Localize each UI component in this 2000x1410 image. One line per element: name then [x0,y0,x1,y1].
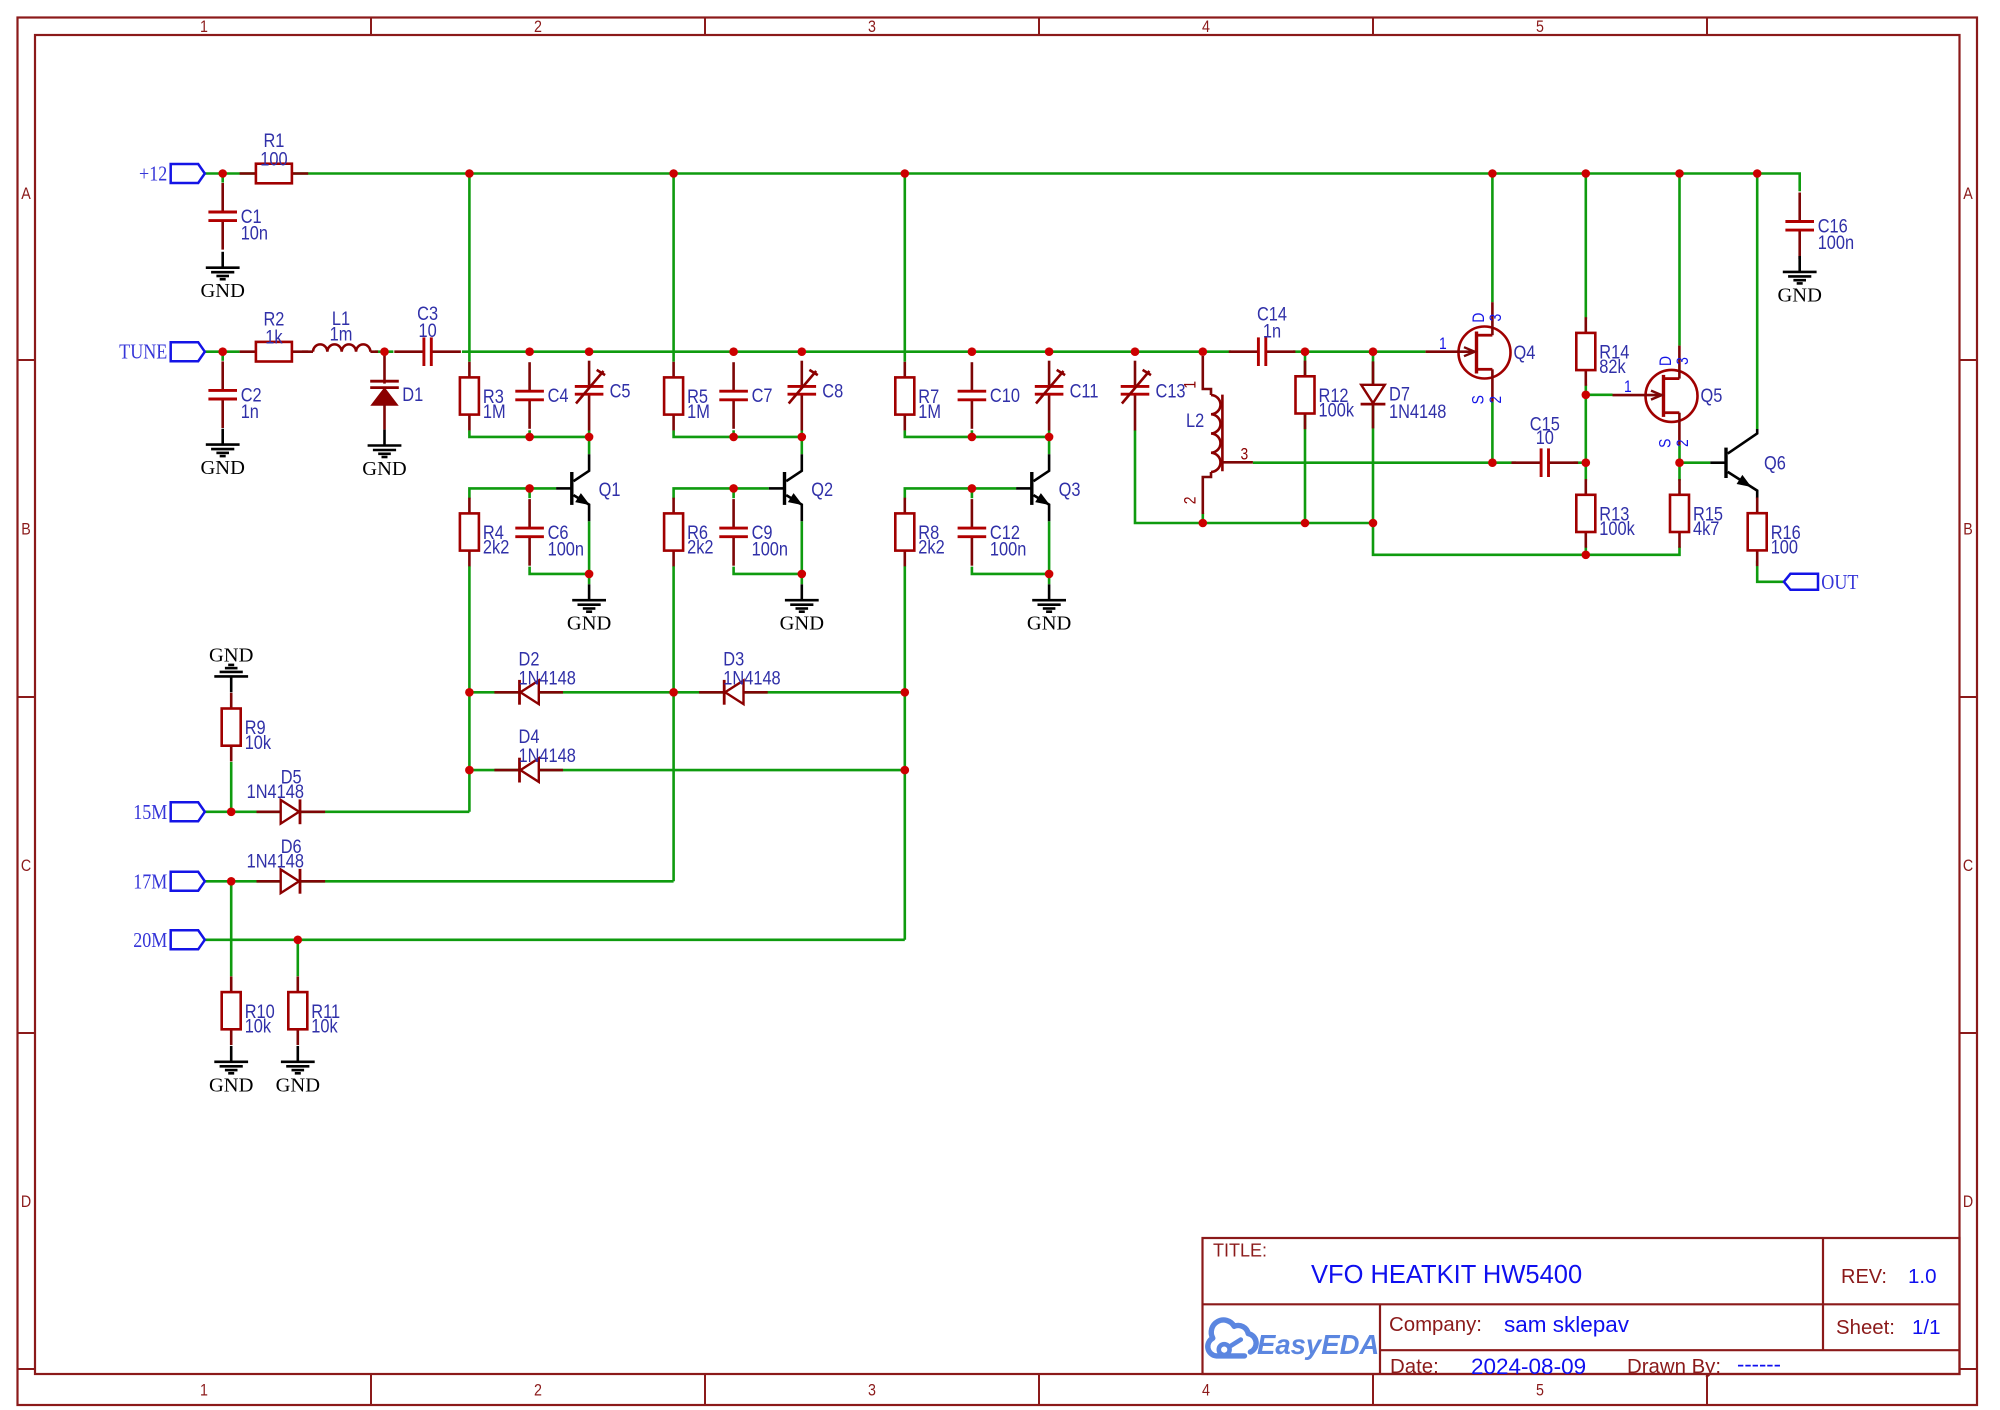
svg-text:20M: 20M [133,928,167,952]
port 20M [133,928,205,952]
junction Q5 gate net [1582,391,1591,400]
svg-text:1N4148: 1N4148 [519,667,576,689]
port OUT [1784,570,1859,594]
svg-text:VFO HEATKIT HW5400: VFO HEATKIT HW5400 [1311,1261,1582,1289]
capacitor C15 [1512,413,1579,477]
capacitor C9 [719,499,788,566]
ground under C16 [1777,256,1821,306]
svg-text:Drawn By:: Drawn By: [1627,1356,1721,1378]
wire base rail [469,488,556,498]
ground above R9 [209,644,253,692]
svg-text:TITLE:: TITLE: [1213,1240,1267,1260]
junction base rail [968,484,977,493]
svg-text:1M: 1M [687,400,710,422]
svg-text:1M: 1M [483,400,506,422]
svg-text:TUNE: TUNE [119,340,167,364]
wire osc bottom rail [469,430,589,454]
wire 17M net [205,880,674,883]
capacitor C1 [208,183,268,250]
wire TUNE rail [462,350,1231,353]
junction osc bottom rail [968,433,977,442]
junction tank bottom rail [1301,519,1310,528]
junction +12 rail [1582,169,1591,178]
svg-text:GND: GND [362,458,406,480]
capacitor C3 [394,302,461,366]
svg-text:17M: 17M [133,870,167,894]
junction TUNE net [1301,347,1310,356]
wire osc bottom rail [674,430,802,454]
wire cap stub [971,430,974,437]
resistor R11 [288,976,340,1045]
svg-text:REV:: REV: [1841,1266,1887,1288]
svg-text:2k2: 2k2 [483,536,509,558]
svg-text:C: C [21,857,31,875]
resistor R12 [1296,361,1355,430]
svg-text:B: B [21,520,31,538]
svg-text:4k7: 4k7 [1693,518,1719,540]
wire tank bottom rail [1135,430,1680,555]
svg-text:3: 3 [1241,445,1249,463]
svg-text:Q6: Q6 [1764,452,1786,474]
wire bypass stub [528,488,531,498]
svg-text:GND: GND [200,457,244,479]
svg-text:1N4148: 1N4148 [1389,401,1446,423]
capacitor C14 [1229,303,1296,366]
varactor C13 [1121,361,1186,431]
svg-text:D: D [1963,1193,1973,1211]
svg-text:1N4148: 1N4148 [247,781,304,803]
capacitor C6 [515,499,584,566]
resistor R3 [460,362,506,431]
svg-text:1n: 1n [241,400,259,422]
svg-text:1: 1 [200,1381,208,1399]
junction TUNE net [1199,347,1208,356]
svg-text:10: 10 [418,320,436,342]
JFET Q5 [1613,346,1723,448]
junction +12 rail [901,169,910,178]
junction +12 rail [669,169,678,178]
junction D2-D3 rail [901,688,910,697]
svg-text:2k2: 2k2 [918,536,944,558]
junction TUNE net [1369,347,1378,356]
diode D6 [247,835,326,893]
svg-text:GND: GND [567,613,611,635]
junction TUNE net [525,347,534,356]
port 17M [133,870,205,894]
junction base rail [729,484,738,493]
svg-text:GND: GND [1777,284,1821,306]
svg-text:C10: C10 [990,385,1020,407]
junction R13 bottom rail [1582,551,1591,560]
junction emitter rail [798,570,807,579]
svg-text:2: 2 [534,1381,542,1399]
capacitor C7 [719,362,772,429]
junction TUNE net [798,347,807,356]
JFET Q4 [1426,302,1536,404]
resistor R4 [460,498,509,567]
junction TUNE net [218,347,227,356]
junction TUNE net [729,347,738,356]
resistor R2 [240,308,309,362]
svg-text:1N4148: 1N4148 [723,667,780,689]
wire cap stub [528,430,531,437]
wire L1 to C3 [375,350,393,353]
svg-text:10: 10 [1536,427,1554,449]
diode D3 [699,648,781,705]
junction emitter rail [1045,570,1054,579]
wire Q4 drain [1491,174,1494,303]
svg-text:GND: GND [200,280,244,302]
junction D4 rail [901,766,910,775]
junction D2-D3 rail [669,688,678,697]
svg-text:OUT: OUT [1821,570,1858,594]
port 15M [133,800,205,824]
junction L2 tap net [1488,458,1497,467]
svg-text:Q2: Q2 [811,478,833,500]
svg-text:C11: C11 [1070,380,1099,402]
junction +12 rail [1488,169,1497,178]
ground under C1 [200,252,244,302]
varactor diode D1 [370,352,423,430]
svg-text:Q5: Q5 [1701,385,1723,407]
resistor R5 [664,362,710,431]
svg-text:EasyEDA: EasyEDA [1257,1329,1379,1360]
junction osc bottom rail [585,433,594,442]
junction L2 tap net [1582,458,1591,467]
wire Q6 collector riser [1756,174,1759,430]
ground under Q1 [567,584,611,634]
junction osc bottom rail [1045,433,1054,442]
title block [1203,1238,1960,1379]
wire TUNE port lead [205,350,240,353]
junction 15M net [227,808,236,817]
wire D2-D3 rail [469,691,904,694]
svg-text:100n: 100n [752,538,788,560]
svg-text:S: S [1469,395,1487,404]
svg-text:100: 100 [260,148,287,170]
wire C15 to R13 [1574,461,1586,464]
ground under C2 [200,429,244,479]
junction emitter rail [585,570,594,579]
svg-text:5: 5 [1536,1381,1544,1399]
port TUNE [119,340,205,364]
svg-text:1/1: 1/1 [1912,1316,1941,1339]
svg-text:GND: GND [276,1074,320,1096]
svg-text:L2: L2 [1186,410,1204,432]
svg-text:100n: 100n [990,538,1026,560]
wire varcap stub [1048,430,1051,437]
resistor R9 [222,693,272,762]
svg-text:1.0: 1.0 [1908,1265,1937,1288]
wire R8 to 20M node [903,566,906,940]
wire base rail [905,488,1016,498]
svg-text:Q4: Q4 [1514,341,1536,363]
svg-text:GND: GND [1027,613,1071,635]
svg-text:D1: D1 [402,383,423,405]
svg-text:D: D [1470,313,1488,323]
svg-text:3: 3 [868,1381,876,1399]
resistor R8 [895,498,944,567]
wire R6 to 17M node [672,566,675,881]
wire Q6 base lead [1680,461,1711,464]
diode D5 [247,766,326,824]
resistor R1 [240,130,309,184]
wire R9 lead [230,762,233,812]
wire C2 stub [221,352,224,361]
resistor R13 [1576,479,1635,548]
ground under D1 [362,430,406,480]
wire D7 column [1372,352,1375,523]
junction TUNE net [585,347,594,356]
wire C16 stub [1798,190,1801,193]
junction osc bottom rail [729,433,738,442]
junction +12 rail [465,169,474,178]
diode D4 [494,726,575,783]
svg-text:D: D [1657,356,1675,366]
svg-text:1: 1 [1181,381,1199,389]
ground under Q2 [780,584,824,634]
svg-text:C8: C8 [822,380,843,402]
svg-text:1: 1 [1624,378,1632,396]
svg-text:2: 2 [534,18,542,36]
junction 20M net [294,936,303,945]
wire base rail [674,488,769,498]
wire +12 to R3 [468,174,471,362]
ground under R10 [209,1046,253,1096]
svg-text:GND: GND [209,644,253,666]
resistor R16 [1748,498,1801,567]
junction base rail [525,484,534,493]
resistor R14 [1576,317,1629,386]
junction TUNE net [1045,347,1054,356]
svg-text:100n: 100n [548,538,584,560]
wire Q5 source lead [1678,445,1681,463]
capacitor C16 [1785,193,1854,260]
resistor R6 [664,498,713,567]
diode D7 [1361,361,1447,428]
svg-text:C: C [1963,857,1973,875]
wire emitter lead [800,521,803,574]
varactor C11 [1035,361,1099,431]
wire emitter rail [972,567,1049,585]
wire bypass stub [971,488,974,498]
transistor Q6 [1710,429,1786,499]
wire varcap stub [588,430,591,437]
wire C1 stub [221,174,224,183]
wire 15M net [205,810,470,813]
junction osc bottom rail [525,433,534,442]
capacitor C10 [958,362,1020,429]
junction +12 rail [1675,169,1684,178]
svg-text:2: 2 [1181,497,1199,505]
svg-text:A: A [1963,185,1973,203]
svg-text:C7: C7 [752,385,773,407]
wire osc bottom rail [905,430,1049,454]
wire cap stub [732,430,735,437]
svg-text:10k: 10k [245,731,272,753]
inductor L2 [1181,356,1252,514]
wire D4 rail [469,769,904,772]
wire R14 top [1585,174,1588,319]
junction TUNE net [380,347,389,356]
capacitor C4 [515,362,568,429]
svg-text:1m: 1m [330,323,353,345]
wire +12 to R5 [672,174,675,362]
junction +12 rail [218,169,227,178]
svg-text:D: D [21,1193,31,1211]
junction TUNE net [968,347,977,356]
junction D4 rail [465,766,474,775]
svg-text:2: 2 [1674,439,1692,447]
wire OUT net [1757,561,1784,582]
svg-text:S: S [1656,439,1674,448]
wire L2 pin2 stub [1202,513,1205,523]
junction L2 tap net [1675,458,1684,467]
wire 20M net [205,938,905,941]
wire R10 lead [230,881,233,976]
svg-text:100k: 100k [1319,399,1355,421]
svg-text:5: 5 [1536,18,1544,36]
svg-text:Sheet:: Sheet: [1836,1317,1895,1339]
junction 17M net [227,877,236,886]
svg-text:C4: C4 [548,385,569,407]
varactor C8 [788,361,844,431]
wire Q5 gate lead [1586,393,1613,396]
svg-text:1k: 1k [265,326,283,348]
ground under Q3 [1027,584,1071,634]
wire R4 to diode matrix [468,566,471,812]
svg-text:B: B [1963,520,1973,538]
svg-text:A: A [21,185,31,203]
svg-text:10k: 10k [311,1015,338,1037]
svg-text:sam sklepav: sam sklepav [1504,1312,1630,1337]
svg-text:1: 1 [200,18,208,36]
svg-text:Q3: Q3 [1059,478,1081,500]
inductor L1 [302,307,378,351]
junction TUNE net [1131,347,1140,356]
capacitor C2 [208,361,261,428]
wire R13 bottom lead [1585,547,1588,555]
port +12 [139,162,205,186]
svg-text:1M: 1M [918,400,941,422]
wire +12 rail [205,174,1800,192]
resistor R15 [1670,479,1723,548]
wire bypass stub [732,488,735,498]
junction D2-D3 rail [465,688,474,697]
wire L2 tap net [1253,461,1516,464]
svg-text:2024-08-09: 2024-08-09 [1471,1354,1586,1379]
wire emitter rail [530,567,590,585]
wire R15 top lead [1678,463,1681,481]
varactor C5 [575,361,631,431]
svg-text:3: 3 [1674,357,1692,365]
svg-text:15M: 15M [133,800,167,824]
svg-text:3: 3 [1487,314,1505,322]
wire R14-Q5 gate column [1585,384,1588,480]
ground under R11 [276,1046,320,1096]
wire TUNE rail 2 [1293,350,1425,353]
wire R11 lead [296,940,299,976]
wire Q4 source lead [1491,402,1494,463]
svg-text:100n: 100n [1818,232,1854,254]
wire Q5 drain [1678,174,1681,346]
junction tank bottom rail [1369,519,1378,528]
transistor Q3 [1016,454,1080,521]
transistor Q1 [556,454,620,521]
wire varcap stub [800,430,803,437]
svg-text:1: 1 [1439,335,1447,353]
svg-text:Company:: Company: [1389,1314,1482,1336]
svg-text:100k: 100k [1599,518,1635,540]
EasyEDA logo [1208,1320,1380,1360]
svg-text:1N4148: 1N4148 [519,745,576,767]
diode D2 [494,648,575,705]
wire +12 to R7 [903,174,906,362]
capacitor C12 [958,499,1027,566]
svg-text:Date:: Date: [1390,1356,1439,1378]
svg-text:------: ------ [1737,1352,1781,1377]
svg-text:1N4148: 1N4148 [247,850,304,872]
wire emitter lead [588,521,591,574]
svg-text:4: 4 [1202,18,1210,36]
wire emitter lead [1048,521,1051,574]
svg-text:Q1: Q1 [599,478,621,500]
svg-text:100: 100 [1771,536,1798,558]
wire R12 column [1304,352,1307,523]
transistor Q2 [769,454,833,521]
svg-text:+12: +12 [139,162,167,186]
svg-text:C5: C5 [610,380,631,402]
svg-text:4: 4 [1202,1381,1210,1399]
svg-text:2k2: 2k2 [687,536,713,558]
wire emitter rail [734,567,802,585]
svg-text:GND: GND [780,613,824,635]
junction tank bottom rail [1199,519,1208,528]
resistor R10 [222,976,275,1045]
svg-text:10n: 10n [241,222,268,244]
svg-text:2: 2 [1487,396,1505,404]
svg-text:10k: 10k [245,1015,272,1037]
svg-text:82k: 82k [1599,356,1626,378]
svg-text:1n: 1n [1263,320,1281,342]
junction +12 rail [1753,169,1762,178]
resistor R7 [895,362,941,431]
svg-text:GND: GND [209,1074,253,1096]
junction osc bottom rail [798,433,807,442]
svg-text:3: 3 [868,18,876,36]
